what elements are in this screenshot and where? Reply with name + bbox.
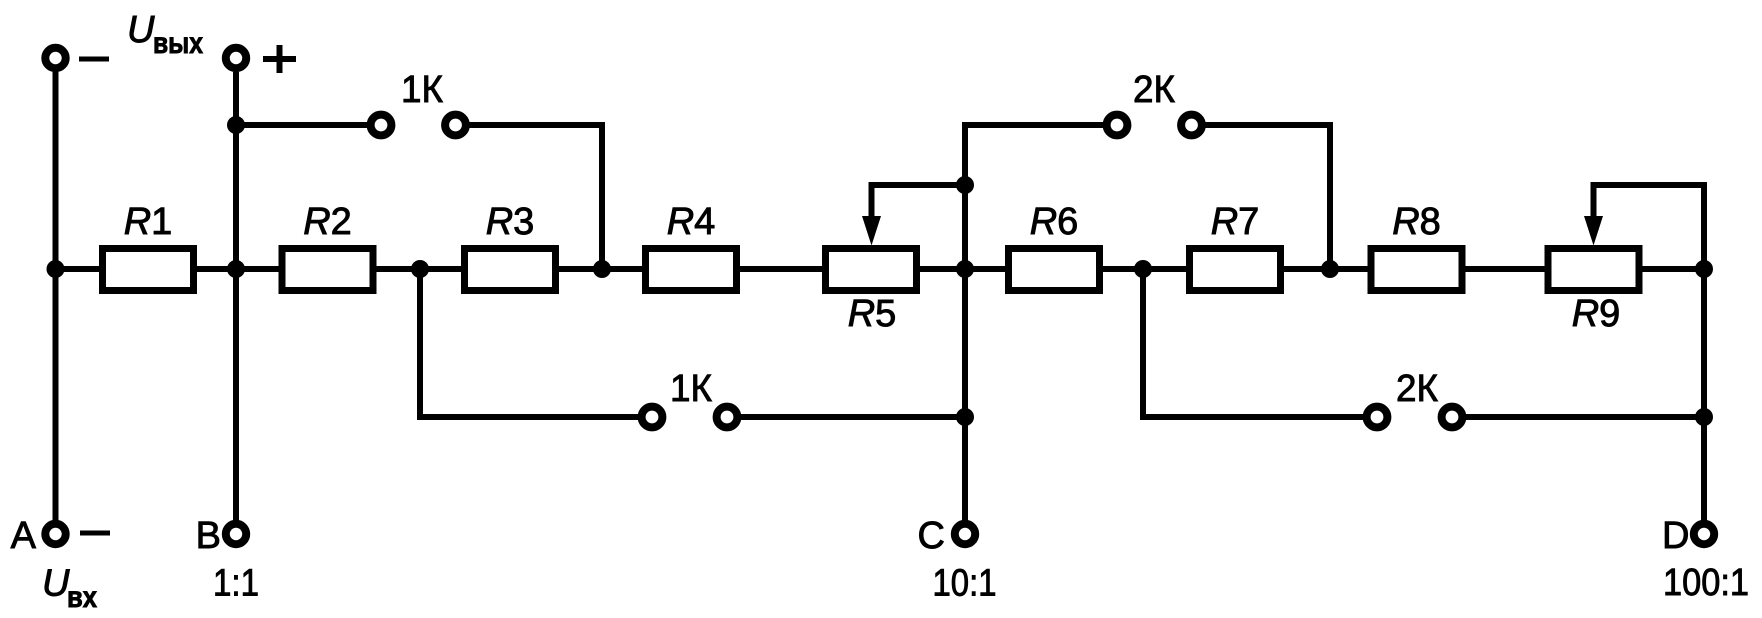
junction node C on bus bbox=[956, 260, 974, 278]
wire bus after R6 down to switch S4 left contact bbox=[1143, 269, 1363, 417]
svg-text:1:1: 1:1 bbox=[213, 563, 259, 605]
switch S1 contact right bbox=[445, 115, 466, 136]
svg-text:вх: вх bbox=[67, 581, 97, 614]
wire switch S2 right contact down to bus after R7 bbox=[1206, 125, 1331, 269]
svg-text:A: A bbox=[11, 515, 37, 557]
svg-text:R1: R1 bbox=[124, 201, 173, 243]
junction after R7 bbox=[1321, 260, 1339, 278]
switch S3 contact left bbox=[642, 407, 663, 428]
potentiometer R9 body bbox=[1548, 249, 1639, 291]
svg-text:1К: 1К bbox=[670, 368, 712, 410]
polarity minus at terminal A bbox=[80, 531, 110, 536]
resistor R7 bbox=[1190, 249, 1281, 291]
potentiometer R5 body bbox=[826, 249, 917, 291]
terminal A bbox=[45, 524, 65, 544]
potentiometer R5 wiper arrowhead bbox=[862, 216, 881, 246]
junction node C bottom switch bbox=[956, 408, 974, 426]
wire R5 wiper to node C line bbox=[872, 185, 966, 224]
svg-text:R5: R5 bbox=[848, 293, 897, 335]
wire vertical line node B bbox=[233, 72, 239, 520]
switch S2 contact right bbox=[1181, 115, 1202, 136]
terminal D bbox=[1694, 524, 1714, 544]
svg-text:R9: R9 bbox=[1572, 293, 1621, 335]
svg-text:R4: R4 bbox=[667, 201, 716, 243]
switch S4 contact left bbox=[1367, 407, 1388, 428]
svg-text:R7: R7 bbox=[1211, 201, 1260, 243]
svg-text:вых: вых bbox=[153, 27, 203, 60]
resistor R6 bbox=[1009, 249, 1100, 291]
wire main horizontal bus bbox=[56, 266, 1705, 272]
terminal Uvyh plus bbox=[226, 48, 246, 68]
wire switch S4 right contact to node D line bbox=[1466, 414, 1704, 420]
svg-text:R6: R6 bbox=[1030, 201, 1079, 243]
svg-text:2К: 2К bbox=[1396, 368, 1438, 410]
resistor R8 bbox=[1371, 249, 1462, 291]
wire R9 wiper to node D vertical line bbox=[1594, 185, 1705, 520]
junction after R6 bbox=[1134, 260, 1152, 278]
switch S3 contact right bbox=[717, 407, 738, 428]
switch S2 contact left bbox=[1107, 115, 1128, 136]
terminal B bbox=[226, 524, 246, 544]
svg-text:U: U bbox=[42, 563, 70, 605]
wire node B to switch S1 left contact bbox=[236, 122, 367, 128]
junction after R3 bbox=[593, 260, 611, 278]
junction R5 wiper on node C line bbox=[956, 176, 974, 194]
svg-text:R3: R3 bbox=[486, 201, 535, 243]
polarity minus at Uvyh terminal bbox=[79, 57, 109, 62]
terminal C bbox=[955, 524, 975, 544]
junction node B top bbox=[227, 116, 245, 134]
junction node A on bus bbox=[47, 260, 65, 278]
switch S1 contact left bbox=[371, 115, 392, 136]
junction after R2 bbox=[411, 260, 429, 278]
wire vertical line node A bbox=[53, 72, 59, 520]
junction node D bottom switch bbox=[1695, 408, 1713, 426]
svg-text:C: C bbox=[918, 515, 945, 557]
svg-text:R8: R8 bbox=[1392, 201, 1441, 243]
potentiometer R9 wiper arrowhead bbox=[1584, 216, 1603, 246]
svg-text:R2: R2 bbox=[303, 201, 352, 243]
svg-text:10:1: 10:1 bbox=[933, 563, 997, 605]
polarity plus at Uvyh terminal bbox=[263, 45, 296, 73]
svg-text:U: U bbox=[127, 9, 155, 51]
wire vertical line node C with top corner to 2K switch bbox=[965, 125, 1103, 520]
wire bus after R2 down to switch S3 left contact bbox=[420, 269, 638, 417]
resistor R3 bbox=[465, 249, 556, 291]
svg-text:B: B bbox=[196, 515, 221, 557]
junction node D on bus bbox=[1695, 260, 1713, 278]
svg-text:1К: 1К bbox=[401, 69, 443, 111]
svg-text:2К: 2К bbox=[1133, 69, 1175, 111]
switch S4 contact right bbox=[1442, 407, 1463, 428]
resistor R2 bbox=[282, 249, 373, 291]
resistor R4 bbox=[646, 249, 737, 291]
terminal Uvyh minus bbox=[45, 48, 65, 68]
resistor R1 bbox=[103, 249, 194, 291]
wire switch S3 right contact to node C line bbox=[741, 414, 965, 420]
svg-text:D: D bbox=[1662, 515, 1689, 557]
svg-text:100:1: 100:1 bbox=[1663, 562, 1749, 604]
junction node B on bus bbox=[227, 260, 245, 278]
wire switch S1 right contact down to bus after R3 bbox=[470, 125, 603, 269]
